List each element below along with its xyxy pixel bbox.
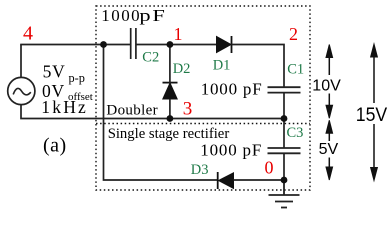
capacitor C2: [131, 28, 136, 59]
svg-text:Doubler: Doubler: [106, 102, 158, 118]
ground: [269, 180, 300, 208]
capacitor C1: [268, 87, 301, 92]
svg-text:C2: C2: [142, 50, 159, 66]
svg-text:D1: D1: [213, 58, 231, 74]
junction node 3: [167, 115, 174, 122]
diode D1: [217, 36, 232, 53]
svg-text:15V: 15V: [356, 103, 388, 125]
doubler dashed box: [96, 6, 310, 190]
svg-text:D3: D3: [191, 162, 209, 178]
diode D2: [163, 83, 178, 99]
wire C1 to node 3 rail: [283, 93, 285, 119]
5V up arrow: [326, 120, 333, 141]
wire node 3 rail to C3: [283, 119, 285, 149]
junction node 4 tap: [100, 41, 107, 48]
svg-text:10V: 10V: [312, 77, 341, 94]
10V down arrow: [326, 94, 333, 119]
svg-text:1000 pF: 1000 pF: [201, 80, 263, 99]
C2 value label: [101, 6, 166, 25]
capacitor C3: [268, 148, 301, 153]
svg-text:4: 4: [23, 23, 33, 45]
svg-text:(a): (a): [43, 135, 67, 157]
15V up arrow: [371, 44, 378, 103]
svg-text:C3: C3: [287, 125, 304, 141]
junction node 3 right: [281, 115, 288, 122]
wire node 1 to D2: [169, 45, 171, 84]
svg-text:1000: 1000: [101, 6, 141, 25]
svg-text:1: 1: [174, 24, 183, 44]
wire D3 to node 0: [234, 179, 285, 181]
svg-text:pF: pF: [139, 7, 166, 26]
rectifier divider dashed line: [96, 123, 310, 125]
wire D2 to node 3: [169, 99, 171, 119]
AC source V1: [8, 77, 35, 104]
wire C3 to node 0: [283, 153, 285, 180]
wire source bottom rail (node 3): [21, 105, 284, 119]
wire node 4 branch down to D3: [104, 45, 218, 181]
wire C2 to D1: [136, 44, 217, 46]
wire D1 to node 2 corner to C1: [232, 45, 285, 88]
svg-text:D2: D2: [173, 61, 191, 77]
diode D3: [218, 172, 234, 189]
svg-text:C1: C1: [287, 62, 304, 78]
svg-text:5V: 5V: [319, 141, 339, 158]
junction node 0: [281, 177, 288, 184]
wire top: node 4 to C2: [20, 44, 130, 46]
5V down arrow: [326, 158, 333, 181]
svg-text:3: 3: [183, 99, 193, 120]
svg-text:Single stage rectifier: Single stage rectifier: [108, 126, 230, 142]
svg-text:0: 0: [265, 158, 274, 178]
svg-text:2: 2: [289, 24, 298, 44]
15V down arrow: [371, 124, 378, 181]
10V up arrow: [326, 45, 333, 76]
svg-text:1kHz: 1kHz: [41, 97, 88, 117]
svg-text:1000 pF: 1000 pF: [200, 140, 262, 159]
junction node 1: [167, 41, 174, 48]
wire source top to node 4 corner: [20, 45, 22, 78]
